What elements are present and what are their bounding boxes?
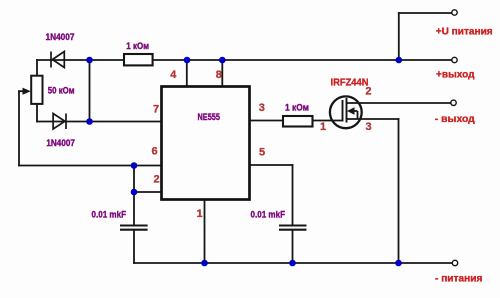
svg-text:1 кОм: 1 кОм — [285, 102, 309, 113]
svg-text:NE555: NE555 — [198, 112, 221, 123]
svg-text:1 кОм: 1 кОм — [126, 41, 149, 52]
svg-text:2: 2 — [365, 85, 371, 97]
svg-text:6: 6 — [152, 146, 158, 158]
svg-text:- выход: - выход — [435, 113, 475, 125]
svg-text:1: 1 — [320, 121, 326, 133]
svg-text:1N4007: 1N4007 — [46, 32, 75, 43]
svg-text:0.01 mkF: 0.01 mkF — [251, 210, 286, 221]
svg-text:+U питания: +U питания — [436, 25, 493, 37]
svg-text:0.01 mkF: 0.01 mkF — [92, 209, 127, 220]
svg-text:3: 3 — [366, 121, 372, 133]
svg-text:- питания: - питания — [435, 273, 482, 285]
svg-text:2: 2 — [154, 174, 160, 186]
svg-text:1: 1 — [197, 208, 203, 220]
svg-text:4: 4 — [170, 69, 177, 81]
svg-text:3: 3 — [259, 102, 265, 114]
svg-text:5: 5 — [259, 147, 265, 159]
svg-text:+выход: +выход — [436, 68, 475, 80]
svg-text:1N4007: 1N4007 — [46, 138, 75, 149]
svg-text:50 кОм: 50 кОм — [48, 86, 75, 97]
svg-text:8: 8 — [216, 69, 222, 81]
svg-text:IRFZ44N: IRFZ44N — [331, 77, 369, 89]
svg-text:7: 7 — [153, 103, 159, 115]
